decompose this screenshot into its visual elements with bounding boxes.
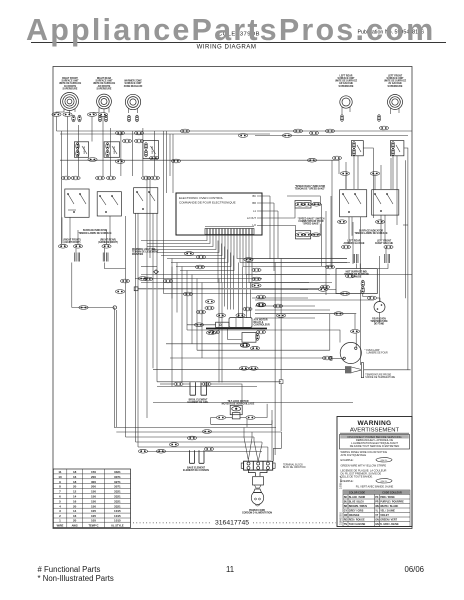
svg-text:3.935 e p a4: 3.935 e p a4 — [340, 475, 343, 489]
svg-text:3321: 3321 — [114, 470, 121, 474]
svg-text:BLOC DE JONCTION: BLOC DE JONCTION — [283, 467, 306, 469]
svg-text:3321: 3321 — [114, 504, 121, 508]
svg-text:AVANT GAUCHE: AVANT GAUCHE — [375, 242, 394, 245]
svg-text:RIGHT REAR: RIGHT REAR — [97, 77, 112, 80]
svg-text:LUMIERE DE FOUR: LUMIERE DE FOUR — [367, 352, 389, 354]
svg-text:* Non-Illustrated Parts: * Non-Illustrated Parts — [38, 574, 114, 583]
svg-text:INF SW: INF SW — [84, 145, 86, 154]
svg-text:105: 105 — [91, 509, 96, 513]
svg-text:MAINTIEN: MAINTIEN — [132, 253, 143, 256]
svg-text:UL STYLE: UL STYLE — [111, 523, 124, 527]
svg-text:11: 11 — [58, 470, 62, 474]
svg-text:TERMINAL BLOCK: TERMINAL BLOCK — [283, 464, 303, 467]
svg-text:3271: 3271 — [114, 480, 121, 484]
svg-text:WARNING: WARNING — [358, 420, 392, 427]
svg-text:150: 150 — [91, 499, 96, 503]
svg-text:INF SW: INF SW — [152, 145, 154, 154]
svg-text:105: 105 — [91, 514, 96, 518]
svg-text:300: 300 — [91, 480, 96, 484]
svg-text:ZONE RECHAUD: ZONE RECHAUD — [124, 85, 143, 88]
svg-text:"SPEED BAKE" INDICATOR: "SPEED BAKE" INDICATOR — [295, 185, 326, 188]
svg-text:ELEMENT DE GRIL: ELEMENT DE GRIL — [188, 402, 210, 404]
svg-text:GRN / JAUNE: GRN / JAUNE — [383, 523, 399, 526]
svg-text:COMMUTATEUR POUR: COMMUTATEUR POUR — [298, 220, 324, 223]
svg-text:3321: 3321 — [114, 499, 121, 503]
svg-text:BLACK / NOIR: BLACK / NOIR — [349, 496, 366, 499]
svg-text:GN-YL: GN-YL — [375, 523, 383, 526]
svg-text:* OVEN LAMP: * OVEN LAMP — [365, 349, 380, 352]
svg-text:ELEMENT DE CUISSON: ELEMENT DE CUISSON — [183, 470, 209, 472]
svg-text:BU: BU — [344, 501, 348, 504]
svg-text:11: 11 — [226, 565, 234, 574]
svg-text:ORANGE: ORANGE — [349, 514, 360, 517]
svg-text:OR: OR — [344, 514, 348, 517]
svg-text:150: 150 — [91, 470, 96, 474]
svg-text:DE FAIRE TOUT SERVICE D ENTRET: DE FAIRE TOUT SERVICE D ENTRETIEN — [350, 444, 400, 448]
svg-text:LEFT REAR: LEFT REAR — [348, 240, 361, 243]
svg-text:DE FOND: DE FOND — [374, 324, 385, 326]
svg-text:UNITE DE SURFACE: UNITE DE SURFACE — [335, 80, 358, 83]
svg-text:18: 18 — [73, 470, 77, 474]
svg-text:REAR OVEN: REAR OVEN — [372, 318, 386, 321]
svg-text:RD: RD — [344, 519, 348, 522]
svg-text:PURPLE / POURPRE: PURPLE / POURPRE — [380, 501, 404, 504]
svg-text:RED / ROUGE: RED / ROUGE — [349, 519, 365, 522]
svg-text:GN: GN — [375, 519, 379, 522]
svg-text:VOYANT DE SURFACE: VOYANT DE SURFACE — [344, 273, 369, 276]
svg-text:(ARRIERE DROIT): (ARRIERE DROIT) — [98, 241, 118, 244]
svg-text:RELAY &: RELAY & — [254, 321, 264, 324]
svg-text:CONTROLEUR: CONTROLEUR — [254, 325, 271, 327]
svg-text:FIL VERT AVEC BANDE JAUNE: FIL VERT AVEC BANDE JAUNE — [356, 485, 394, 489]
svg-text:GREY / GRIS: GREY / GRIS — [349, 510, 364, 513]
svg-text:(RIGHT REAR): (RIGHT REAR) — [100, 239, 116, 242]
svg-text:14: 14 — [73, 509, 77, 513]
svg-text:WIRE: WIRE — [57, 523, 64, 527]
svg-text:SURFACE UNIT: SURFACE UNIT — [96, 80, 114, 83]
svg-text:3321: 3321 — [114, 490, 121, 494]
svg-text:PK: PK — [375, 496, 379, 499]
svg-text:150: 150 — [91, 504, 96, 508]
svg-text:TN: TN — [344, 523, 347, 526]
svg-text:GN-YL: GN-YL — [381, 460, 388, 462]
svg-text:YEL / JAUNE: YEL / JAUNE — [380, 510, 395, 513]
svg-text:PR: PR — [375, 501, 379, 504]
svg-text:# Functional Parts: # Functional Parts — [38, 565, 101, 574]
svg-text:ARRIERE GAUCHE: ARRIERE GAUCHE — [344, 242, 365, 245]
svg-text:GREEN / VERT: GREEN / VERT — [380, 519, 397, 522]
svg-text:ELECTRONIC OVEN CONTROL: ELECTRONIC OVEN CONTROL — [179, 196, 224, 200]
svg-text:COLOR CODE: COLOR CODE — [349, 492, 366, 495]
svg-text:06/06: 06/06 — [404, 565, 424, 574]
svg-text:L2 OUT: L2 OUT — [247, 216, 256, 220]
svg-text:TAN / HAVANE: TAN / HAVANE — [349, 523, 366, 526]
svg-text:CODE COULEUR: CODE COULEUR — [382, 492, 402, 495]
svg-text:"SPEED BAKE": "SPEED BAKE" — [302, 223, 319, 226]
svg-text:LEFT REAR: LEFT REAR — [340, 74, 353, 77]
svg-text:TEMOIN LAMPE DE SURFACE: TEMOIN LAMPE DE SURFACE — [78, 232, 112, 235]
svg-text:AUX MOTOR: AUX MOTOR — [254, 319, 268, 322]
svg-text:105: 105 — [91, 519, 96, 523]
svg-text:SUPERIEURE: SUPERIEURE — [339, 86, 354, 88]
svg-text:CELLE DE TOUTE BANDE.: CELLE DE TOUTE BANDE. — [341, 475, 374, 479]
svg-text:UNITE DE SURFACE: UNITE DE SURFACE — [59, 82, 82, 85]
svg-text:SURFACE UNIT: SURFACE UNIT — [338, 77, 356, 80]
svg-text:1015: 1015 — [114, 514, 121, 518]
svg-text:GY: GY — [344, 510, 348, 513]
svg-text:TEMP°C: TEMP°C — [88, 523, 98, 527]
svg-text:INF SW: INF SW — [114, 145, 116, 154]
svg-text:COMMANDE DE FOUR ELECTRONIQUE: COMMANDE DE FOUR ELECTRONIQUE — [179, 201, 236, 205]
svg-text:AWG: AWG — [72, 523, 78, 527]
svg-text:VT: VT — [375, 514, 379, 517]
svg-text:16: 16 — [73, 514, 77, 518]
svg-text:MOTEUR DE VERROUILLAGE: MOTEUR DE VERROUILLAGE — [222, 402, 255, 405]
svg-text:SURFACE UNIT: SURFACE UNIT — [125, 82, 143, 85]
svg-text:16: 16 — [73, 475, 77, 479]
svg-text:3071: 3071 — [114, 475, 121, 479]
svg-text:3321: 3321 — [114, 495, 121, 499]
svg-text:SONDE DE TEMPERATURE: SONDE DE TEMPERATURE — [365, 376, 395, 379]
svg-text:UNITE DE SURFACE: UNITE DE SURFACE — [384, 80, 407, 83]
svg-text:BROWN / BRUN: BROWN / BRUN — [349, 505, 367, 508]
svg-text:CHAUDE: CHAUDE — [352, 276, 362, 279]
svg-text:20: 20 — [73, 519, 77, 523]
svg-text:14: 14 — [73, 495, 77, 499]
svg-text:SURFACE INDICATOR: SURFACE INDICATOR — [359, 230, 384, 233]
svg-text:16: 16 — [73, 499, 77, 503]
svg-text:WARMER ZONE: WARMER ZONE — [124, 80, 142, 83]
svg-text:SURFACE INDICATOR: SURFACE INDICATOR — [83, 229, 108, 232]
svg-text:BR: BR — [344, 505, 348, 508]
svg-text:VIOLET: VIOLET — [380, 514, 389, 517]
svg-text:WARNING LIGHT IND.: WARNING LIGHT IND. — [132, 248, 156, 251]
svg-text:12: 12 — [73, 490, 77, 494]
svg-text:AV GAUCHE: AV GAUCHE — [388, 82, 402, 85]
svg-text:200: 200 — [91, 475, 96, 479]
svg-text:BLUE / BLEU: BLUE / BLEU — [349, 501, 364, 504]
svg-text:SUPERIEURE: SUPERIEURE — [97, 88, 112, 90]
svg-text:BK: BK — [253, 194, 257, 198]
svg-text:AR DROITE: AR DROITE — [98, 85, 111, 88]
svg-text:BR: BR — [252, 201, 256, 205]
svg-text:TEMOIN LAMPE DE SURFACE: TEMOIN LAMPE DE SURFACE — [354, 232, 388, 235]
svg-text:PINK / ROSE: PINK / ROSE — [380, 496, 395, 499]
svg-text:150: 150 — [91, 495, 96, 499]
svg-text:AVIS D ETIQUETAGE: AVIS D ETIQUETAGE — [341, 453, 367, 457]
svg-text:3071: 3071 — [114, 485, 121, 489]
svg-text:GREEN WIRE WITH YELLOW STRIPE: GREEN WIRE WITH YELLOW STRIPE — [341, 464, 387, 468]
svg-text:20: 20 — [73, 504, 77, 508]
svg-text:UNITE DE SURFACE: UNITE DE SURFACE — [93, 82, 116, 85]
svg-text:20: 20 — [73, 485, 77, 489]
svg-text:316417745: 316417745 — [215, 520, 249, 527]
svg-text:TEMPERATURE PROBE: TEMPERATURE PROBE — [365, 374, 391, 377]
svg-text:SUPERIEURE: SUPERIEURE — [63, 88, 78, 90]
svg-text:150: 150 — [91, 490, 96, 494]
svg-text:AVERTISSEMENT: AVERTISSEMENT — [350, 427, 400, 433]
svg-text:YL: YL — [375, 510, 379, 513]
svg-text:HOT SURFACE IND.: HOT SURFACE IND. — [346, 270, 368, 273]
svg-text:AR GAUCHE: AR GAUCHE — [339, 82, 353, 85]
svg-text:200: 200 — [91, 485, 96, 489]
svg-text:SURFACE UNIT: SURFACE UNIT — [62, 80, 80, 83]
svg-text:SURFACE UNIT: SURFACE UNIT — [387, 77, 405, 80]
svg-text:1015: 1015 — [114, 509, 121, 513]
svg-text:TEMOIN DE "SPEED BAKE": TEMOIN DE "SPEED BAKE" — [295, 187, 326, 190]
svg-text:10: 10 — [58, 475, 62, 479]
svg-text:GN-YL: GN-YL — [381, 481, 388, 483]
svg-text:EXAMPLE:: EXAMPLE: — [341, 458, 354, 462]
svg-text:1015: 1015 — [114, 519, 121, 523]
svg-text:"SPEED BAKE" SWITCH: "SPEED BAKE" SWITCH — [298, 217, 325, 220]
svg-text:18: 18 — [73, 480, 77, 484]
svg-text:CORDON D ALIMENTATION: CORDON D ALIMENTATION — [242, 511, 272, 514]
svg-text:BAKE ELEMENT: BAKE ELEMENT — [187, 466, 206, 469]
svg-text:WHITE / BLANC: WHITE / BLANC — [380, 505, 398, 508]
svg-text:SUPERIEURE: SUPERIEURE — [388, 86, 403, 88]
svg-text:WH: WH — [375, 505, 379, 508]
svg-text:AppliancePartsPros.com: AppliancePartsPros.com — [26, 13, 435, 47]
svg-text:BK: BK — [344, 496, 348, 499]
svg-text:AV DROITE: AV DROITE — [64, 85, 77, 88]
svg-text:316905301: 316905301 — [339, 511, 343, 525]
